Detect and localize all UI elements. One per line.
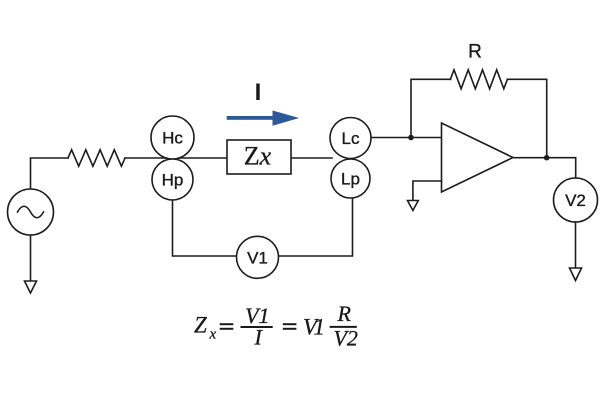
ground (V2) bbox=[570, 268, 582, 281]
terminal Lp bbox=[331, 159, 370, 198]
svg-text:V1: V1 bbox=[247, 249, 268, 268]
svg-text:x: x bbox=[209, 327, 217, 343]
wire: Lc to op-amp inverting input bbox=[371, 137, 442, 139]
impedance Zx box bbox=[227, 140, 291, 174]
current arrow I bbox=[227, 111, 300, 126]
wire: source bottom to ground bbox=[30, 235, 32, 281]
wire: feedback resistor to output node bbox=[507, 79, 546, 157]
op-amp U1 bbox=[442, 123, 514, 192]
svg-text:V2: V2 bbox=[333, 326, 357, 351]
svg-text:Hp: Hp bbox=[162, 171, 184, 190]
resistor (source series) bbox=[68, 150, 125, 166]
wire: V2 to ground bbox=[575, 222, 577, 268]
wire: non-inverting input to ground bbox=[413, 181, 442, 201]
voltmeter V2 bbox=[554, 178, 598, 222]
feedback loop wire (up and over) bbox=[411, 79, 450, 137]
svg-text:V2: V2 bbox=[565, 191, 586, 210]
terminal Hc bbox=[151, 116, 194, 159]
feedback resistor R bbox=[450, 70, 507, 89]
ground (source) bbox=[25, 281, 37, 293]
formula: equals sign 1 bbox=[220, 323, 234, 325]
node: output junction dot bbox=[544, 155, 550, 161]
formula: fraction bar R/V2 bbox=[330, 326, 357, 328]
formula: fraction bar V1/I bbox=[241, 326, 273, 328]
svg-text:Hc: Hc bbox=[162, 129, 183, 148]
wire: Hp down to V1 loop bbox=[173, 199, 237, 256]
formula Zx = V1/I = V1 R/V2 bbox=[194, 301, 358, 351]
svg-text:Lp: Lp bbox=[341, 170, 360, 189]
voltmeter V1 bbox=[237, 236, 279, 278]
ground (op-amp + input) bbox=[408, 201, 419, 211]
wire: V1 to Lp bbox=[279, 198, 353, 256]
terminal Lc bbox=[330, 118, 371, 159]
svg-text:Zx: Zx bbox=[244, 142, 272, 171]
wire: resistor to Zx box (passes behind Hc/Hp) bbox=[125, 157, 227, 159]
svg-text:1: 1 bbox=[314, 314, 326, 339]
wire: Zx box to Lc/Lp bbox=[291, 157, 332, 159]
terminal Hp bbox=[152, 159, 193, 200]
formula: equals sign 2 bbox=[283, 323, 297, 325]
svg-text:R: R bbox=[468, 42, 482, 63]
svg-text:R: R bbox=[336, 301, 351, 326]
svg-text:Lc: Lc bbox=[342, 129, 360, 148]
wire: source top-left corner to resistor bbox=[31, 158, 69, 189]
source V (AC sine source) bbox=[8, 189, 54, 235]
svg-text:Z: Z bbox=[194, 313, 207, 338]
node: feedback/inverting junction dot bbox=[408, 135, 414, 141]
svg-text:I: I bbox=[255, 79, 262, 106]
svg-text:I: I bbox=[254, 325, 264, 350]
sine symbol bbox=[18, 206, 44, 218]
wire: op-amp output to V2 bbox=[513, 158, 576, 178]
